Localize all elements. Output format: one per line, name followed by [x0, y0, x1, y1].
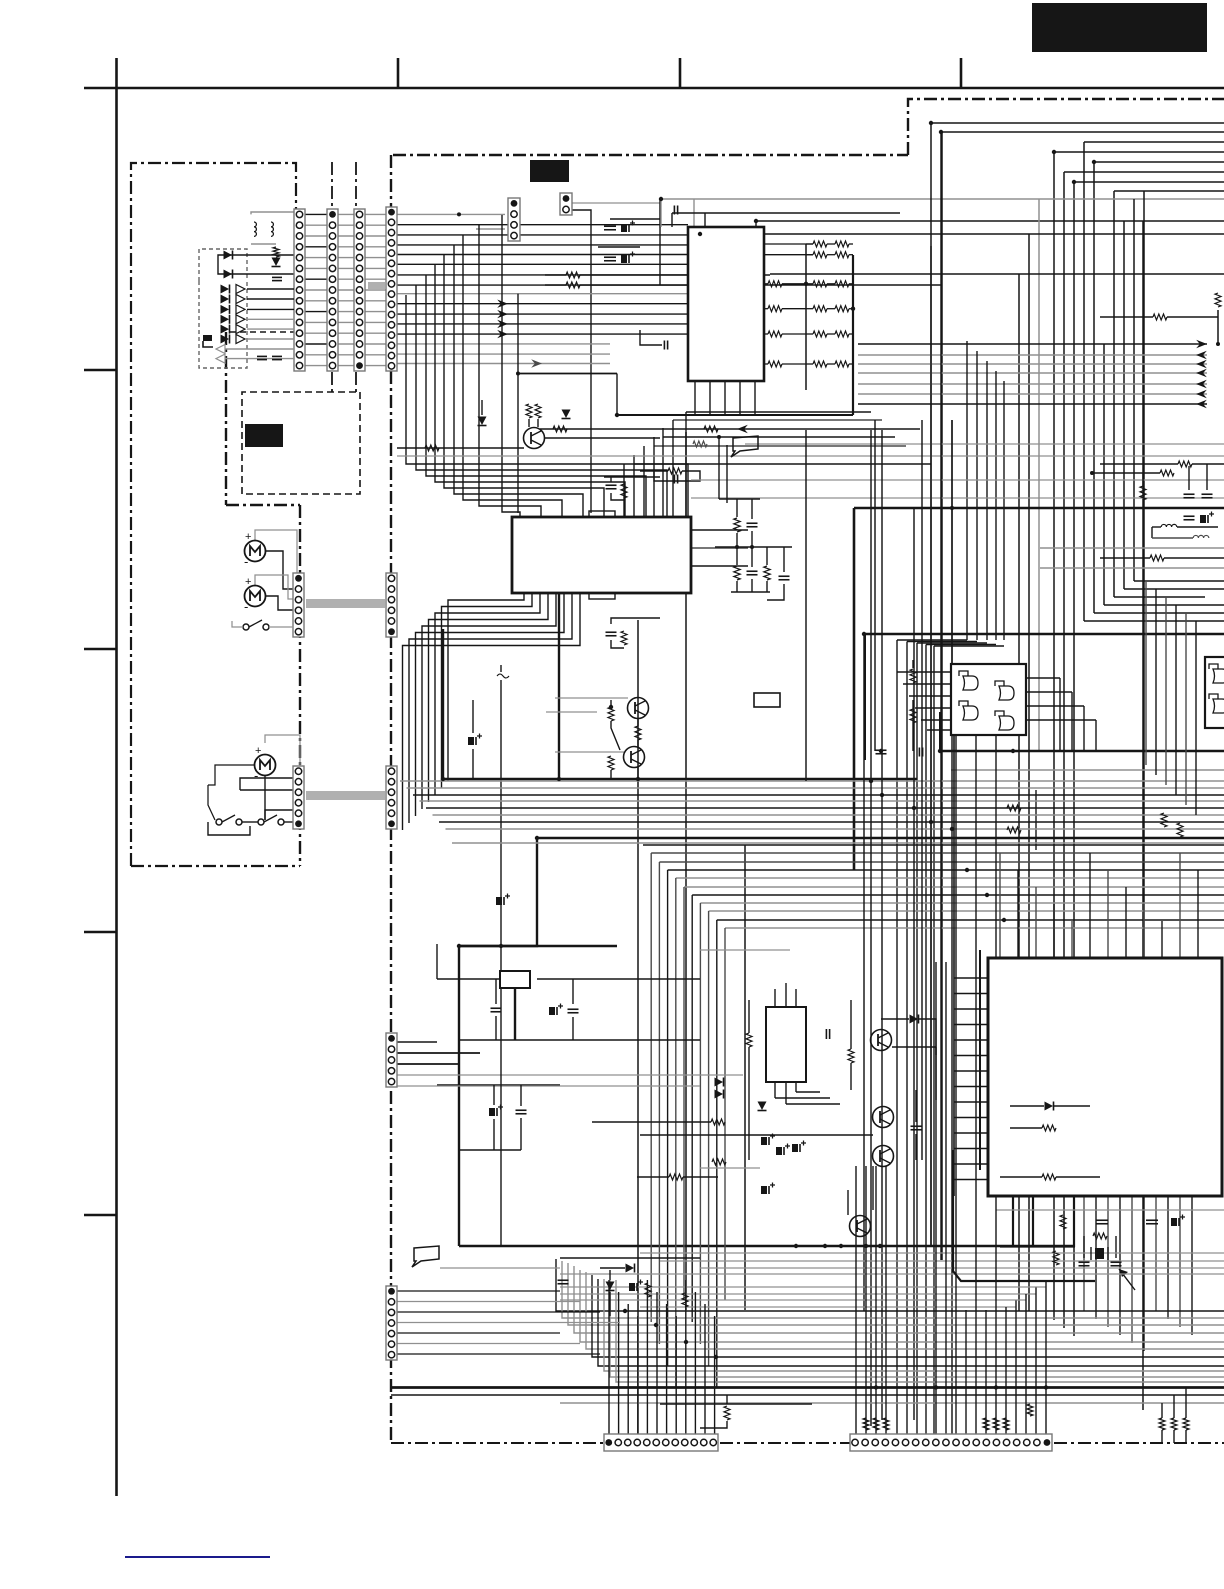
wire — [745, 443, 1224, 445]
wire — [634, 463, 931, 465]
wire — [531, 359, 542, 367]
wire — [1216, 310, 1220, 346]
wire — [406, 215, 688, 517]
capacitor C16 — [1012, 488, 1014, 490]
capacitor C8 — [1202, 464, 1213, 498]
wire — [546, 711, 597, 713]
op-amp U1 — [688, 227, 764, 381]
diode D4 — [562, 410, 571, 419]
capacitor C5 — [674, 206, 677, 215]
wire — [679, 58, 682, 88]
capacitor C3 — [604, 226, 616, 261]
wire — [1084, 1196, 1192, 1351]
wire — [1040, 567, 1224, 569]
switch S2 — [216, 815, 242, 825]
resistor R4 — [535, 404, 541, 418]
wire — [931, 123, 1224, 1410]
wire — [460, 1039, 700, 1041]
capacitor C4 — [621, 221, 635, 264]
wire — [397, 1291, 620, 1354]
wire — [1084, 1236, 1116, 1258]
wire — [1009, 1098, 1011, 1130]
wire — [218, 255, 232, 274]
wire — [397, 447, 524, 449]
wire — [1124, 221, 1224, 589]
wire — [251, 212, 294, 244]
wire — [611, 767, 638, 779]
inductor L4 — [1152, 535, 1209, 538]
wire — [516, 372, 617, 376]
wire — [854, 507, 1224, 510]
wire — [225, 332, 227, 505]
wire — [691, 479, 1224, 481]
wire — [537, 837, 1224, 840]
wire — [299, 505, 301, 866]
connector CN13 — [850, 1434, 1052, 1451]
wire — [391, 1442, 604, 1444]
wire — [299, 214, 392, 365]
capacitor C1 — [272, 277, 282, 280]
wire — [737, 547, 784, 572]
resistor R19 — [910, 660, 916, 683]
wire — [540, 425, 920, 433]
wire — [400, 781, 1224, 843]
ecap E1 — [761, 1134, 806, 1156]
wire — [806, 132, 952, 1436]
connector CN11 — [386, 1033, 397, 1087]
capacitor C20 — [549, 979, 563, 1015]
wire — [610, 199, 660, 285]
capacitor C21 — [568, 979, 579, 1040]
connector CN7 — [293, 766, 304, 829]
wire — [397, 58, 400, 88]
node bus — [306, 791, 385, 800]
wire — [403, 593, 581, 830]
wire — [84, 931, 117, 934]
wire — [640, 1253, 1224, 1268]
wire — [661, 199, 1039, 227]
wire — [265, 735, 300, 766]
inductor L5 — [497, 665, 509, 678]
connector CN8 — [386, 766, 397, 829]
wire — [226, 331, 296, 333]
wire — [232, 255, 294, 274]
capacitor C25 — [629, 1280, 651, 1298]
capacitor C26 — [558, 1280, 569, 1284]
wire — [953, 735, 955, 1196]
wire — [756, 221, 1143, 227]
wire — [908, 99, 1224, 155]
ground — [203, 335, 213, 347]
wire — [775, 1092, 840, 1104]
wire — [715, 531, 792, 549]
wire — [393, 154, 908, 156]
wire — [700, 227, 1029, 234]
svg-text:+: + — [245, 531, 251, 543]
wire — [500, 680, 502, 946]
capacitor C11 — [674, 475, 677, 484]
wire — [437, 944, 580, 979]
resistor R15 — [608, 700, 614, 721]
wire — [242, 392, 360, 494]
wire — [265, 810, 293, 820]
wire — [691, 530, 748, 566]
wire — [555, 698, 628, 752]
wire — [1006, 1281, 1046, 1434]
wire — [265, 596, 293, 610]
wire — [265, 551, 293, 589]
node A — [1032, 3, 1207, 52]
capacitor C9 — [1184, 516, 1195, 520]
diode array — [221, 285, 295, 344]
resistor R35 — [983, 1418, 1009, 1430]
wire — [616, 374, 618, 416]
resistor R40 — [734, 518, 758, 532]
wire — [1000, 1246, 1075, 1248]
wire — [673, 419, 882, 421]
resistor R25 — [592, 1119, 725, 1125]
wire — [766, 707, 768, 740]
resistor R28 — [682, 1293, 688, 1307]
wire — [397, 455, 1224, 457]
resistor R31 — [1093, 1233, 1107, 1239]
resistor R18 — [693, 441, 707, 447]
wire — [84, 648, 117, 651]
resistor R10 — [1100, 555, 1224, 561]
wire — [624, 412, 686, 517]
wire — [459, 945, 617, 947]
resistor R29 — [1010, 1125, 1056, 1131]
capacitor C14 — [468, 700, 482, 779]
wire — [1000, 853, 1198, 958]
wire — [1151, 527, 1153, 538]
wire — [572, 210, 591, 513]
wire — [654, 445, 906, 447]
wire — [397, 1042, 480, 1064]
resistor R32 — [1053, 1251, 1059, 1265]
wire — [694, 199, 705, 227]
wire — [391, 1386, 1224, 1389]
resistor R27 — [712, 1159, 726, 1165]
resistor R9 — [1140, 473, 1146, 500]
op-amp U2 — [512, 511, 691, 599]
wire — [660, 1398, 812, 1404]
capacitor C13 — [606, 632, 617, 636]
resistor R1 — [545, 272, 770, 278]
capacitor C31 — [1146, 1215, 1185, 1227]
wire — [1134, 199, 1224, 581]
wire — [560, 1402, 1224, 1404]
connector CN6 — [386, 573, 397, 637]
wire — [560, 1257, 700, 1259]
inductor L3 — [1152, 524, 1218, 527]
wire — [115, 58, 118, 1496]
capacitor C30 — [1060, 1215, 1108, 1229]
wire — [560, 1287, 1046, 1294]
wire — [459, 838, 537, 1246]
wire — [390, 155, 392, 1444]
diode D6 — [881, 1015, 936, 1056]
wire — [1021, 790, 1036, 850]
wire — [598, 246, 640, 248]
wire — [131, 865, 300, 867]
wire — [459, 1245, 1075, 1247]
node bus — [368, 282, 385, 289]
op-amp U3 — [951, 664, 1026, 735]
resistor network — [764, 241, 853, 415]
transistor Q4 — [871, 1030, 892, 1051]
wire — [84, 1214, 117, 1217]
wire — [695, 381, 755, 415]
wire — [437, 1085, 560, 1150]
wire — [397, 212, 688, 363]
wire — [1054, 1442, 1224, 1444]
capacitor C29 — [1111, 1262, 1122, 1266]
resistor R2 — [545, 282, 941, 288]
wire — [397, 1075, 743, 1086]
wire — [226, 504, 300, 506]
crystal X1 — [1091, 1247, 1108, 1260]
wire — [459, 945, 617, 947]
capacitor C24 — [826, 1000, 829, 1039]
resistor R7 — [1100, 461, 1224, 467]
wire — [443, 593, 559, 779]
component REL1 — [766, 1007, 806, 1082]
connector CN14 — [386, 1286, 397, 1360]
wire — [951, 420, 953, 664]
component K1 — [754, 693, 780, 707]
diode D7 — [715, 1078, 724, 1099]
capacitor C28 — [1079, 1262, 1090, 1266]
diode D5 — [478, 400, 487, 426]
motor M3 — [254, 745, 276, 783]
wire — [864, 634, 866, 760]
wire — [643, 845, 1224, 1388]
wire — [199, 249, 247, 281]
wire — [940, 712, 1224, 751]
wire — [865, 1279, 867, 1434]
resistor R36 — [1159, 1418, 1189, 1430]
resistor R37 — [1027, 1404, 1033, 1416]
switch S1 — [232, 620, 293, 630]
wire — [545, 415, 660, 438]
wire — [1146, 581, 1196, 815]
wire — [637, 718, 639, 747]
wire — [951, 769, 1224, 771]
wire — [331, 162, 333, 392]
diode D10 — [758, 1102, 767, 1111]
wire — [720, 1442, 850, 1444]
wire — [556, 1259, 1224, 1382]
resistor R5 — [1215, 293, 1221, 307]
wire — [355, 162, 357, 392]
capacitor C22 — [489, 1085, 503, 1150]
wire — [1084, 597, 1224, 621]
wire — [691, 497, 1224, 499]
capacitor C7 — [1184, 466, 1195, 498]
wire — [208, 785, 215, 820]
svg-text:-: - — [244, 554, 248, 569]
wire — [255, 575, 293, 599]
wire — [856, 735, 1046, 1434]
ecap E2 — [761, 1183, 775, 1195]
wire — [84, 369, 117, 372]
wire — [663, 436, 895, 438]
wire — [865, 633, 1224, 636]
inductor L2 — [271, 222, 273, 236]
wire — [685, 432, 687, 1310]
diode D2 — [224, 270, 233, 279]
wire — [537, 978, 700, 980]
diode D11 — [1010, 1102, 1090, 1111]
wire — [858, 340, 1207, 408]
node bus — [306, 599, 385, 608]
connector CN12 — [604, 1434, 718, 1451]
svg-text:-: - — [244, 599, 248, 614]
wire — [240, 778, 293, 790]
wire — [960, 58, 963, 88]
resistor R17 — [608, 756, 614, 770]
wire — [199, 281, 247, 368]
wire — [443, 778, 917, 780]
wire — [672, 213, 900, 227]
capacitor C12 — [606, 485, 617, 489]
node C — [245, 424, 283, 447]
connector CN2 — [354, 209, 365, 371]
wire — [775, 983, 796, 1007]
wire — [897, 341, 1004, 1434]
connector CN9 — [508, 198, 520, 241]
diode D1 — [224, 251, 233, 260]
resistor R23 — [746, 1000, 752, 1160]
wire — [1026, 678, 1096, 751]
wire — [255, 530, 297, 578]
svg-text:+: + — [245, 576, 251, 588]
diode D3 — [272, 247, 281, 267]
wire — [700, 950, 790, 1007]
resistor R16 — [635, 726, 641, 740]
wire — [497, 300, 508, 339]
connector CN10 — [560, 193, 572, 215]
wire — [731, 579, 784, 600]
node junctions — [441, 121, 1096, 1390]
resistor R22 — [1007, 805, 1021, 833]
component REG1 — [500, 971, 530, 988]
motor M1 — [244, 531, 266, 569]
diode D9 — [606, 1270, 615, 1316]
wire — [611, 721, 620, 750]
wire — [700, 1167, 760, 1169]
wire — [637, 620, 639, 1434]
resistor R14 — [621, 631, 627, 645]
wire — [560, 1300, 1026, 1307]
capacitor C2 — [257, 356, 282, 359]
node flag2 — [412, 1246, 439, 1267]
wire — [640, 471, 700, 481]
resistor R30 — [1000, 1174, 1100, 1180]
connector CN1 — [386, 207, 397, 371]
wire — [84, 87, 1224, 90]
transistor Q5 — [873, 1107, 894, 1128]
resistor R34 — [863, 1418, 889, 1430]
wire — [529, 419, 538, 427]
op-amp U4 — [1205, 657, 1224, 728]
switch S3 — [258, 815, 284, 825]
wire — [617, 414, 853, 416]
wire — [1104, 344, 1224, 605]
wire — [686, 411, 871, 413]
resistor R24 — [848, 1000, 854, 1090]
wire — [514, 988, 516, 1040]
wire — [609, 1280, 715, 1434]
inductor L1 — [254, 222, 256, 236]
wire — [848, 1166, 873, 1215]
wire — [208, 822, 250, 835]
wire — [131, 163, 296, 866]
resistor R8 — [1090, 470, 1174, 476]
capacitor C17 — [876, 750, 887, 754]
resistor R12 — [668, 468, 682, 474]
wire — [391, 1394, 1224, 1396]
capacitor C10 — [1200, 512, 1214, 524]
wire — [125, 1556, 270, 1558]
wire — [640, 1134, 873, 1136]
wire — [572, 203, 660, 228]
wire — [440, 1267, 560, 1269]
wire — [775, 1082, 796, 1104]
wire — [996, 1209, 1224, 1211]
svg-text:+: + — [255, 745, 261, 757]
wire — [717, 435, 727, 503]
transistor Q3 — [624, 747, 645, 768]
capacitor C15 — [496, 894, 510, 1247]
wire — [892, 1047, 936, 1100]
capacitor C27 — [911, 1090, 922, 1160]
wire — [770, 274, 1019, 380]
node B — [530, 160, 569, 182]
wire — [979, 950, 981, 1170]
resistor R20 — [910, 700, 916, 751]
connector CN5 — [293, 573, 304, 637]
wire — [240, 789, 293, 791]
wire — [1143, 191, 1145, 958]
capacitor C18 — [919, 748, 922, 757]
wire — [953, 1150, 1095, 1281]
wire — [1013, 1196, 1074, 1247]
wire — [208, 765, 255, 785]
wire — [853, 508, 856, 870]
diode D8 — [600, 1264, 635, 1273]
wire — [560, 1273, 1224, 1275]
wire — [1162, 1430, 1186, 1443]
wire — [264, 776, 266, 820]
wire — [897, 672, 951, 730]
wire — [517, 294, 519, 513]
resistor R6 — [1100, 314, 1218, 320]
svg-text:-: - — [254, 768, 258, 783]
wire — [1162, 1387, 1186, 1418]
wire — [604, 477, 660, 500]
wire — [744, 845, 746, 1310]
resistor R13 — [621, 484, 627, 498]
resistor R41 — [734, 566, 790, 580]
resistor R3 — [526, 404, 532, 418]
capacitor C23 — [516, 1085, 527, 1150]
wire — [611, 618, 660, 648]
resistor R26 — [637, 1174, 718, 1180]
wire — [1119, 1269, 1135, 1290]
resistor R21 — [1161, 813, 1183, 837]
